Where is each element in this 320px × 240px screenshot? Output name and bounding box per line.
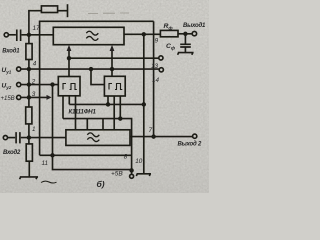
resistor R2 (left rail middle) bbox=[26, 107, 32, 124]
wire branch x52.5 down to bottom bus bbox=[53, 85, 132, 170]
node Г2 pin c on bus Q bbox=[119, 117, 122, 120]
wire input1 to C1 bbox=[9, 34, 16, 36]
left rail: wire node17 down to R1 bbox=[28, 35, 30, 44]
wire resistor to stub bar bbox=[58, 10, 68, 12]
terminal Uу1 bbox=[17, 67, 21, 71]
node pin17 junction bbox=[28, 33, 31, 36]
wire input2 to C2 bbox=[8, 137, 16, 139]
terminal Выход2 bbox=[193, 134, 197, 138]
dropper bus Q into lower box 1 bbox=[86, 119, 88, 130]
wire Uу2 into G1 left pin bbox=[21, 84, 58, 86]
ground bottom left bbox=[20, 177, 38, 179]
ground under Cф bbox=[178, 53, 194, 55]
wire vertical 13-net right side down to output2 line bbox=[153, 21, 155, 136]
arrow +15В bbox=[47, 95, 52, 100]
wire C1 to pin17 of upper converter box bbox=[22, 34, 54, 36]
op-amp U2 lower converter box bbox=[66, 130, 130, 146]
op-amp U1 upper converter box bbox=[53, 27, 124, 44]
wire H_a from U1 lower arrow net to pin13 terminal bbox=[69, 57, 159, 59]
ground bottom right bbox=[136, 174, 151, 176]
resistor R1 (left rail upper) bbox=[26, 44, 32, 60]
terminal Вход2 bbox=[3, 136, 7, 140]
svg-text:Вход2: Вход2 bbox=[3, 150, 21, 156]
svg-text:10: 10 bbox=[135, 158, 143, 165]
svg-text:4: 4 bbox=[33, 60, 37, 67]
svg-text:8: 8 bbox=[124, 153, 128, 160]
bus P wire bbox=[69, 103, 144, 105]
wire R2 down to input2 node bbox=[28, 124, 30, 138]
wire R3 to ground bbox=[28, 161, 30, 176]
wire Г1 pin b down to bus P bbox=[68, 96, 70, 105]
wire Г2 top pin riser to U1 with arrow bbox=[111, 50, 113, 77]
node pin9 junction bbox=[142, 33, 145, 36]
symbol Г pulse in Г2 bbox=[109, 84, 112, 90]
wire Uу1 branch down into Г2 left pin bbox=[91, 69, 104, 85]
node +5В junction bbox=[130, 169, 133, 172]
resistor Rф bbox=[160, 30, 178, 36]
wire +15В with arrow to branch bbox=[21, 96, 47, 98]
terminal Выход1 bbox=[192, 31, 196, 35]
wire pin11 riser: elbow top left, across top to right vertical bbox=[40, 21, 154, 155]
wire node down to R3 bbox=[28, 138, 30, 144]
svg-text:б): б) bbox=[97, 179, 105, 189]
svg-text:1: 1 bbox=[32, 126, 36, 133]
capacitor C2 (Вход2 coupling) bbox=[16, 132, 20, 143]
svg-text:Выход 2: Выход 2 bbox=[178, 142, 202, 148]
wire Г2 pin b down into lower box bbox=[113, 96, 115, 130]
wire Uу1 line to pin14 terminal bbox=[21, 68, 159, 70]
svg-text:Выход1: Выход1 bbox=[183, 23, 206, 29]
wire Г1 pin c down into lower box bbox=[75, 96, 77, 130]
resistor R feedback (top) bbox=[41, 6, 57, 13]
node branch on Uу1 line bbox=[90, 68, 93, 71]
terminal Вход1 bbox=[4, 33, 8, 37]
node output1 filter junction bbox=[184, 32, 187, 35]
wire V9 net down to ground bbox=[143, 34, 145, 173]
symbol Г pulse in Г1 bbox=[63, 84, 66, 90]
wire node17 up to top feedback resistor bbox=[29, 11, 42, 35]
node H_a tap bbox=[68, 57, 71, 60]
wire pin9 from U1 right to Rf bbox=[124, 33, 160, 35]
node +15В on left rail bbox=[28, 96, 31, 99]
generator Г1 box bbox=[58, 77, 80, 96]
wire R1 to R2 through control nodes bbox=[28, 60, 30, 108]
wire output2 line from U2 right edge bbox=[130, 136, 193, 138]
svg-text:3: 3 bbox=[32, 91, 36, 98]
capacitor C1 (Вход1 coupling) bbox=[17, 30, 21, 42]
bus Q wire to +5В riser bbox=[63, 119, 132, 171]
svg-text:13: 13 bbox=[151, 63, 159, 70]
wire Г1 top pin riser to U1 with arrow bbox=[68, 50, 70, 77]
stub terminal bar bbox=[67, 4, 69, 17]
node Uу1 on left rail bbox=[28, 68, 31, 71]
svg-text:К1111ФН1: К1111ФН1 bbox=[69, 109, 97, 116]
svg-text:+5В: +5В bbox=[111, 170, 123, 177]
dropper bus Q into lower box 2 bbox=[102, 119, 104, 130]
wire Rф to output1 terminal bbox=[178, 33, 192, 35]
bus pin8 wire below U2 bbox=[40, 154, 132, 156]
node bus P to V9 bbox=[142, 103, 145, 106]
svg-text:11: 11 bbox=[42, 160, 49, 167]
resistor R3 (below Вход2) bbox=[26, 144, 32, 161]
paper background bbox=[0, 0, 209, 193]
terminal pin14 bbox=[159, 68, 163, 72]
node Uу2 on left rail bbox=[28, 83, 31, 86]
capacitor Cф bbox=[180, 44, 191, 47]
node input2 junction bbox=[28, 136, 31, 139]
node Uу2 branch down bbox=[51, 83, 54, 86]
wire Г1 pin a down to bus Q bbox=[62, 96, 64, 119]
terminal +5В bbox=[130, 174, 134, 178]
svg-text:2: 2 bbox=[31, 79, 36, 86]
svg-text:14: 14 bbox=[152, 77, 160, 84]
node Uу1 to G2 arrow riser bbox=[111, 68, 114, 71]
faint print marks top bbox=[88, 12, 129, 15]
generator Г2 box bbox=[104, 76, 125, 96]
arrow into U1 bottom left bbox=[67, 45, 72, 51]
svg-text:+15В: +15В bbox=[1, 96, 15, 102]
terminal +15В bbox=[17, 95, 21, 99]
wire junction down to Cф bbox=[184, 34, 186, 44]
wire Г2 pin a down to bus P bbox=[107, 96, 109, 104]
node x52.5 on pin8 bus bbox=[51, 154, 54, 157]
terminal Uу2 bbox=[17, 83, 21, 87]
svg-text:17: 17 bbox=[33, 25, 41, 32]
svg-text:9: 9 bbox=[155, 37, 159, 44]
svg-text:Вход1: Вход1 bbox=[2, 48, 20, 54]
decorative squiggle bbox=[41, 181, 57, 183]
wire Г2 pin c down to bus Q bbox=[119, 96, 121, 119]
node V13 joins output2 bbox=[152, 135, 155, 138]
svg-text:7: 7 bbox=[149, 127, 153, 134]
symbol approx-tilde in U2 bbox=[87, 133, 99, 142]
wire C2 to lower box pin1 bbox=[21, 137, 66, 139]
arrow into U1 bottom right bbox=[110, 45, 115, 51]
wire +5В junction to terminal bbox=[131, 170, 133, 174]
terminal pin13 bbox=[159, 56, 163, 60]
node Г2 pin a on bus P bbox=[107, 103, 110, 106]
wire Cф to ground bbox=[184, 47, 186, 52]
symbol approx-tilde in U1 bbox=[86, 31, 98, 40]
